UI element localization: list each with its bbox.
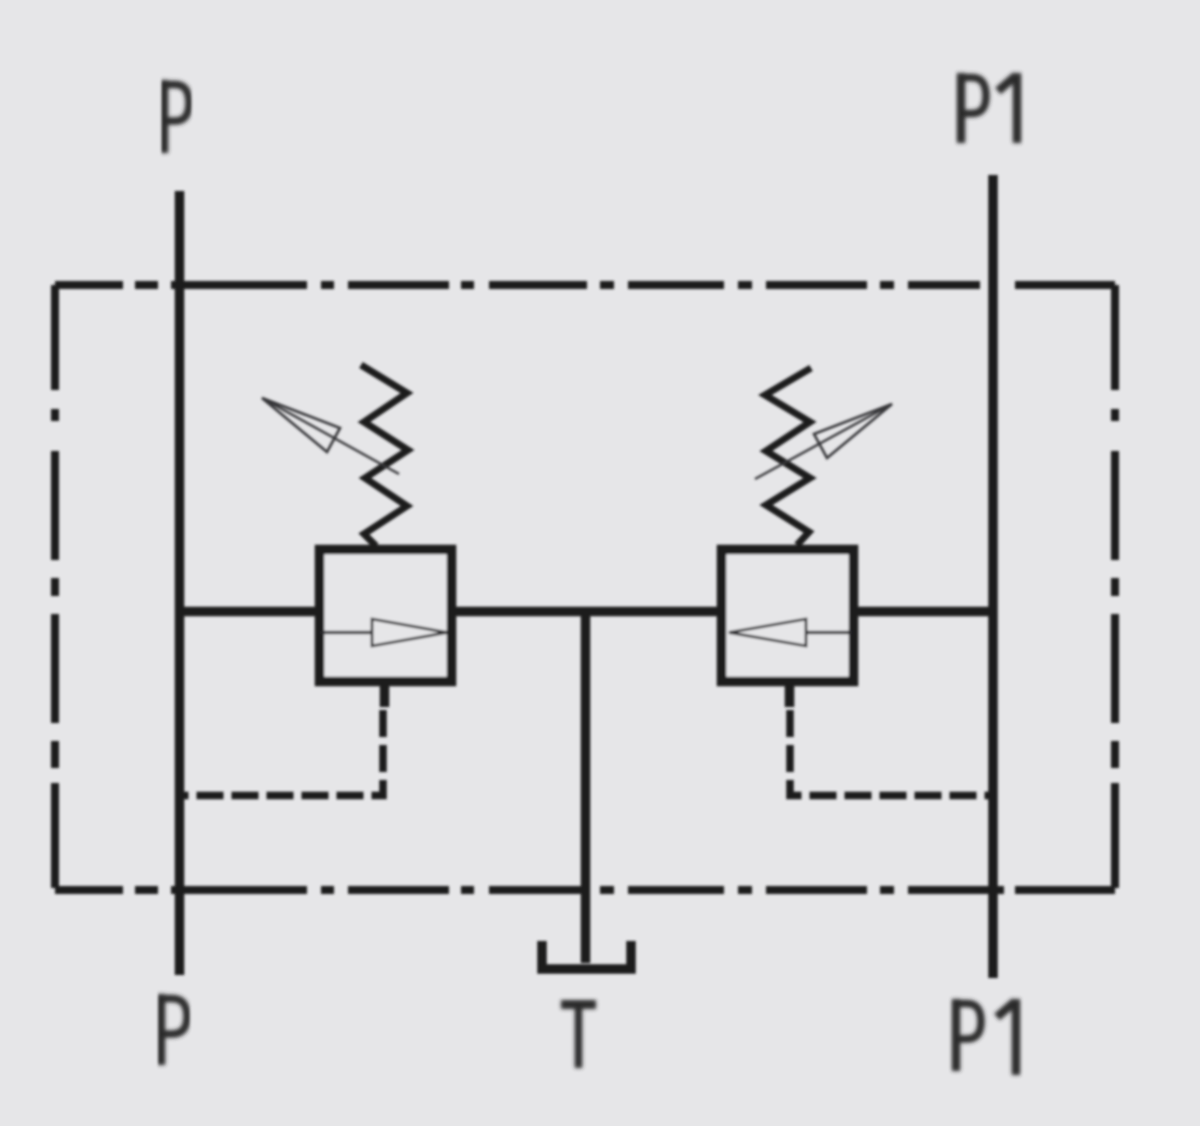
valve V1 internal flow arrow (points right): [321, 619, 447, 646]
valve V2 internal flow arrow (points left): [729, 619, 851, 646]
label P1 (top): [961, 73, 1017, 143]
valve body V1 (left square): [320, 550, 452, 682]
label P (top): [164, 80, 189, 153]
valve body V2 (right square): [722, 550, 854, 682]
pilot dashed line left (valve V1 to P): [180, 710, 383, 796]
port line P (vertical): [175, 191, 185, 975]
enclosure bottom border (dash-dot): [55, 886, 1115, 894]
enclosure left border (dash-dot): [51, 285, 59, 890]
main horizontal wire P to P1: [180, 607, 994, 617]
enclosure top border (dash-dot): [55, 281, 1115, 289]
tank symbol at T: [542, 941, 631, 969]
stub below valve V1: [380, 686, 390, 707]
pilot dashed line right (valve V2 to P1): [790, 710, 992, 796]
stub below valve V2: [785, 686, 795, 707]
spring of valve V1: [361, 365, 408, 546]
label P1 (bottom): [956, 999, 1016, 1075]
adjustment arrow of valve V2: [755, 404, 892, 479]
label T (bottom): [561, 1005, 596, 1069]
spring of valve V2: [765, 368, 811, 545]
wire T branch (vertical): [581, 612, 591, 964]
label P (bottom): [161, 994, 187, 1065]
adjustment arrow of valve V1: [262, 398, 399, 474]
port line P1 (vertical): [988, 175, 998, 978]
enclosure right border (dash-dot): [1111, 285, 1119, 890]
